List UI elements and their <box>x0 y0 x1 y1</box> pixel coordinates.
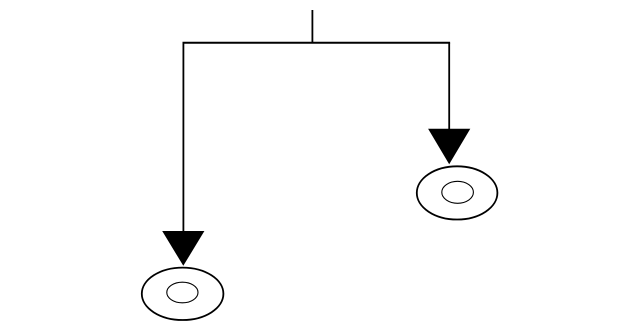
node: left inner ellipse <box>167 282 198 303</box>
node: right inner ellipse <box>442 181 474 203</box>
wire: top vertical stub <box>311 10 313 43</box>
wire: right vertical drop <box>448 43 450 129</box>
arrowhead: left arrow <box>162 231 204 266</box>
node: left outer ellipse <box>142 268 224 320</box>
arrowhead: right arrow <box>428 129 470 164</box>
node: right outer ellipse <box>417 166 498 219</box>
wire: left vertical drop <box>182 43 184 232</box>
wire: horizontal branch line <box>183 42 451 44</box>
